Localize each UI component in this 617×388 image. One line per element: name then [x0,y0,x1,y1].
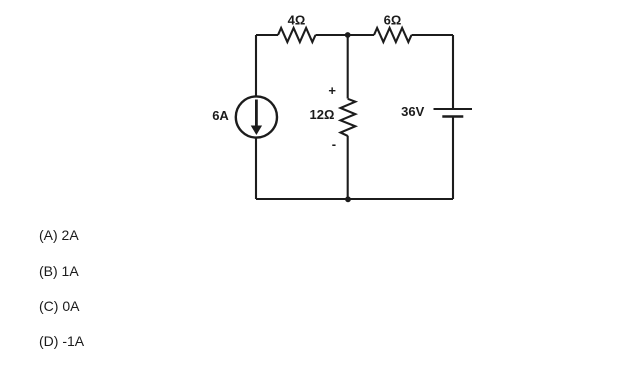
svg-text:+: + [328,83,336,98]
svg-text:-: - [332,137,336,152]
resistor R3 12ohm zigzag [341,99,356,136]
wire top-right segment [412,34,454,36]
answer option B [39,263,79,279]
battery V1 short plate [442,115,463,118]
svg-text:6A: 6A [212,108,229,123]
wire middle upper [347,35,349,99]
wire right lower [452,118,454,200]
wire right upper [452,35,454,108]
svg-text:4Ω: 4Ω [288,13,306,28]
junction node top [345,32,351,38]
resistor R1 4ohm zigzag [278,28,316,42]
svg-text:6Ω: 6Ω [384,13,402,28]
wire left lower [255,138,257,200]
resistor R2 6ohm zigzag [374,28,412,42]
current source I1 circle [236,96,277,137]
junction node bottom [345,196,351,202]
answer option A [39,227,79,243]
wire top-left segment [256,34,278,36]
wire middle lower [347,136,349,199]
svg-text:12Ω: 12Ω [310,107,335,122]
wire top-middle segment [316,34,375,36]
current source I1 arrow [252,100,262,135]
battery V1 long plate [434,108,473,110]
answer option D [39,333,84,349]
svg-text:36V: 36V [401,104,424,119]
answer option C [39,298,79,314]
wire left upper [255,35,257,97]
wire bottom [256,198,453,200]
